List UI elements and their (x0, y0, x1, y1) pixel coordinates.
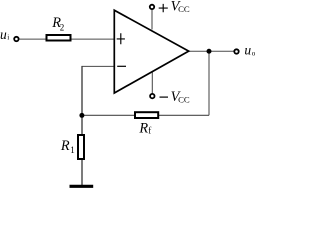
svg-text:R: R (138, 120, 148, 136)
svg-text:o: o (252, 50, 255, 58)
output terminal circle (234, 49, 238, 53)
op-amp U1 (114, 10, 188, 93)
wire node A to op-amp - input (82, 65, 114, 67)
wire inverting-input rail down to ground (81, 66, 83, 186)
resistor R2 (47, 35, 71, 41)
svg-text:CC: CC (178, 4, 190, 14)
node junction dot feedback/inverting input (79, 113, 84, 118)
svg-text:CC: CC (178, 94, 190, 104)
wire R2 to op-amp + input (72, 38, 115, 40)
wire +Vcc (151, 10, 153, 30)
op-amp + input sign (117, 33, 125, 44)
input terminal circle (14, 37, 18, 41)
wire feedback horizontal (82, 114, 209, 116)
svg-text:f: f (148, 126, 151, 136)
svg-text:u: u (0, 27, 7, 42)
svg-text:i: i (7, 34, 9, 42)
label +Vcc (159, 4, 168, 12)
svg-text:2: 2 (60, 22, 65, 32)
svg-text:R: R (60, 138, 70, 154)
-Vcc terminal circle (150, 94, 154, 98)
svg-text:u: u (244, 43, 251, 58)
resistor Rf (135, 112, 158, 118)
wire output vertical down to feedback (208, 51, 210, 115)
wire input terminal to R2 (20, 38, 47, 40)
label -Vcc (160, 96, 169, 98)
ground (70, 185, 94, 188)
wire -Vcc (151, 72, 153, 94)
svg-text:1: 1 (70, 145, 75, 155)
+Vcc terminal circle (150, 5, 154, 9)
wire op-amp output to terminal (189, 50, 234, 52)
op-amp - input sign (117, 65, 126, 67)
node junction dot output (207, 49, 212, 54)
resistor R1 (78, 135, 84, 159)
